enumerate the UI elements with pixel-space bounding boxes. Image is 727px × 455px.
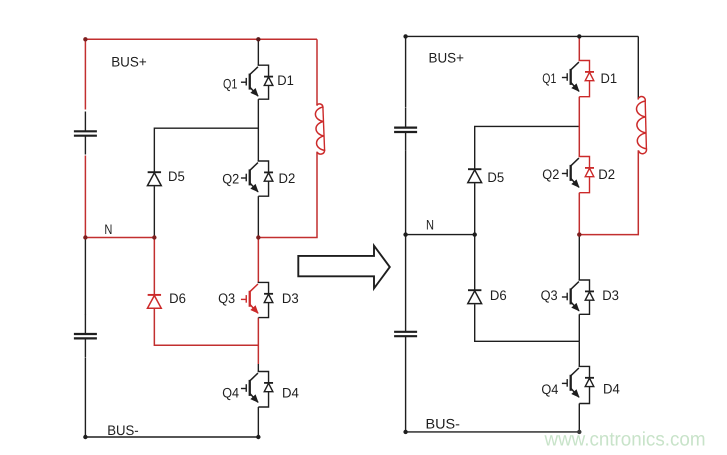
svg-text:www.cntronics.com: www.cntronics.com bbox=[544, 429, 706, 451]
svg-text:Q4: Q4 bbox=[222, 385, 239, 400]
wire D6 junction to Q4 collector bbox=[257, 364, 259, 372]
wire BUS- rail (right circuit) bbox=[406, 431, 580, 433]
node AC output (midpoint) bbox=[577, 232, 581, 236]
svg-text:D5: D5 bbox=[487, 170, 504, 185]
capacitor C1 (left, BUS+ to N) bbox=[74, 112, 97, 155]
wire left DC rail lower (C2 to BUS-) bbox=[405, 355, 407, 432]
svg-text:D1: D1 bbox=[601, 71, 618, 86]
svg-text:D2: D2 bbox=[279, 171, 296, 186]
wire left DC rail (C1 to N, red) bbox=[84, 156, 86, 238]
capacitor C2 (left, N to BUS-) bbox=[74, 314, 97, 357]
transistor Q4 (IGBT) bbox=[241, 373, 258, 402]
wire D6 anode to Q3/Q4 junction bbox=[475, 304, 580, 341]
svg-text:Q2: Q2 bbox=[222, 172, 239, 187]
svg-text:D6: D6 bbox=[169, 291, 186, 306]
svg-text:D3: D3 bbox=[602, 288, 619, 303]
diode D1 (anti-parallel) bbox=[579, 61, 594, 97]
node BUS- / switch column junction bbox=[256, 435, 260, 439]
inductor L1 (left circuit) (load) bbox=[315, 104, 324, 154]
wire N node to D6 cathode bbox=[474, 235, 476, 291]
svg-text:Q1: Q1 bbox=[223, 77, 237, 92]
node N on left rail bbox=[403, 232, 407, 236]
wire BUS+ rail right segment (red) bbox=[258, 38, 317, 40]
node N / clamp column junction bbox=[152, 235, 156, 239]
wire BUS+ rail left segment (red) bbox=[85, 38, 258, 40]
diode D6 (clamp) bbox=[468, 290, 482, 303]
wire inductor to output node (red) bbox=[258, 152, 317, 238]
wire Q3 emitter to D6 junction (red) bbox=[257, 318, 259, 364]
wire left DC rail (N to C2, black) bbox=[84, 238, 86, 315]
wire Q3 emitter to D6 junction bbox=[578, 314, 580, 341]
diode D1 (anti-parallel) bbox=[258, 65, 273, 99]
diode D6 (clamp) bbox=[147, 295, 161, 308]
svg-text:D6: D6 bbox=[490, 288, 507, 303]
wire left DC rail (N to C2) bbox=[405, 235, 407, 312]
diode D4 (anti-parallel) bbox=[579, 366, 594, 403]
node BUS- / switch column junction bbox=[577, 430, 581, 434]
wire top node to Q1 collector bbox=[257, 39, 259, 65]
svg-text:Q2: Q2 bbox=[542, 167, 559, 182]
node BUS+ / left rail junction bbox=[403, 34, 407, 38]
wire BUS+ rail (right circuit) bbox=[406, 35, 639, 37]
wire top node to Q1 collector (red) bbox=[578, 36, 580, 60]
wire inductor to output node (red) bbox=[579, 150, 638, 234]
node BUS+ / left rail junction bbox=[83, 37, 87, 41]
wire D6 anode to Q3/Q4 junction (red) bbox=[154, 309, 258, 345]
diode D4 (anti-parallel) bbox=[258, 372, 273, 408]
wire D5 anode to N node bbox=[474, 183, 476, 234]
wire Q2 emitter to output node (red) bbox=[578, 193, 580, 235]
wire output node to Q3 collector (red) bbox=[257, 238, 259, 283]
wire N rail (right circuit) bbox=[406, 234, 475, 236]
capacitor C2 (right, N to BUS-) bbox=[394, 312, 417, 355]
node N / clamp column junction bbox=[473, 232, 477, 236]
diode D3 (anti-parallel) bbox=[258, 282, 273, 317]
capacitor C1 (right, BUS+ to N) bbox=[394, 108, 417, 151]
svg-text:BUS+: BUS+ bbox=[429, 51, 465, 66]
wire D5 anode to N node bbox=[153, 186, 155, 237]
svg-text:BUS-: BUS- bbox=[107, 423, 139, 438]
transistor Q1 (IGBT) bbox=[241, 67, 258, 96]
svg-text:D4: D4 bbox=[282, 386, 299, 401]
wire Q1 emitter to Q2 collector bbox=[257, 99, 259, 161]
node AC output (midpoint) bbox=[256, 235, 260, 239]
svg-text:N: N bbox=[426, 218, 434, 233]
transistor Q3 (IGBT) bbox=[241, 284, 258, 313]
svg-text:D3: D3 bbox=[282, 291, 299, 306]
wire left DC rail lower (C2 to BUS-) bbox=[84, 358, 86, 438]
svg-text:Q3: Q3 bbox=[218, 291, 235, 306]
node BUS- / left rail junction bbox=[403, 430, 407, 434]
svg-text:BUS+: BUS+ bbox=[111, 55, 147, 70]
diode D3 (anti-parallel) bbox=[579, 280, 594, 314]
svg-text:Q1: Q1 bbox=[542, 71, 556, 86]
inductor L1 (right circuit) (load) bbox=[637, 97, 647, 154]
wire BUS- rail (left circuit) bbox=[85, 436, 259, 438]
transistor Q2 (IGBT) bbox=[562, 158, 579, 187]
transistor Q1 (IGBT) bbox=[562, 62, 579, 91]
svg-text:Q4: Q4 bbox=[541, 382, 558, 397]
wire left DC rail upper (BUS+ to C1) bbox=[405, 36, 407, 107]
diode D5 (clamp) bbox=[468, 169, 482, 182]
diode D2 (anti-parallel) bbox=[579, 157, 594, 193]
node BUS+ / switch column junction bbox=[256, 37, 260, 41]
wire N node to D6 cathode (red) bbox=[153, 238, 155, 295]
svg-text:D2: D2 bbox=[598, 167, 615, 182]
svg-text:N: N bbox=[104, 222, 112, 237]
wire left DC rail (C1 to N) bbox=[405, 151, 407, 235]
svg-text:Q3: Q3 bbox=[541, 288, 558, 303]
arrow (transition between switching states) bbox=[298, 246, 390, 289]
wire Q2 emitter to output node bbox=[257, 196, 259, 237]
wire right rail down to inductor (red) bbox=[316, 39, 318, 105]
wire D5 top lead to Q1/Q2 junction bbox=[154, 128, 258, 172]
wire left DC rail upper (red, BUS+ to C1) bbox=[84, 39, 86, 109]
wire right rail down to inductor bbox=[637, 36, 639, 99]
transistor Q4 (IGBT) bbox=[562, 368, 579, 397]
transistor Q2 (IGBT) bbox=[241, 163, 258, 192]
wire Q1 emitter to Q2 collector (red) bbox=[578, 97, 580, 157]
wire D6 junction to Q4 collector bbox=[578, 341, 580, 366]
transistor Q3 (IGBT) bbox=[562, 282, 579, 311]
wire D5 top lead to Q1/Q2 junction bbox=[475, 126, 580, 169]
svg-text:BUS-: BUS- bbox=[426, 416, 461, 431]
svg-text:D1: D1 bbox=[277, 73, 294, 88]
node BUS- / left rail junction bbox=[83, 435, 87, 439]
diode D2 (anti-parallel) bbox=[258, 161, 273, 196]
wire Q4 emitter to BUS- rail bbox=[257, 407, 259, 437]
wire N rail (red) bbox=[85, 237, 154, 239]
svg-text:D4: D4 bbox=[603, 382, 620, 397]
diode D5 (clamp) bbox=[147, 172, 161, 185]
wire Q4 emitter to BUS- rail bbox=[578, 404, 580, 432]
wire output node to Q3 collector bbox=[578, 235, 580, 280]
node N on left rail bbox=[83, 235, 87, 239]
node BUS+ / switch column junction bbox=[577, 34, 581, 38]
svg-text:D5: D5 bbox=[168, 169, 185, 184]
